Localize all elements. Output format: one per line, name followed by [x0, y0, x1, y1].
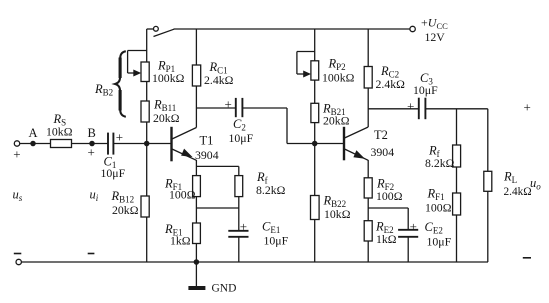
- wire collector1 to C2: [196, 107, 235, 109]
- resistor RE2: [364, 221, 372, 241]
- svg-text:100kΩ: 100kΩ: [152, 71, 185, 85]
- svg-text:12V: 12V: [425, 30, 446, 44]
- svg-text:1kΩ: 1kΩ: [170, 234, 191, 248]
- svg-text:8.2kΩ: 8.2kΩ: [256, 183, 286, 197]
- wire C1 to T1 base: [113, 143, 170, 145]
- svg-text:3904: 3904: [195, 148, 219, 162]
- resistor RF2: [364, 178, 372, 198]
- svg-text:20kΩ: 20kΩ: [153, 111, 180, 125]
- wire collector2 to C3: [368, 108, 419, 110]
- wire RC1 branch: [195, 29, 197, 128]
- svg-text:RL: RL: [503, 170, 517, 186]
- svg-text:+: +: [410, 219, 417, 234]
- svg-text:2.4kΩ: 2.4kΩ: [504, 186, 532, 198]
- svg-text:100kΩ: 100kΩ: [322, 71, 355, 85]
- resistor Rf (stage 1): [235, 176, 243, 197]
- svg-text:A: A: [29, 126, 38, 140]
- svg-text:10μF: 10μF: [229, 131, 254, 145]
- svg-text:100Ω: 100Ω: [169, 188, 196, 202]
- svg-text:10kΩ: 10kΩ: [324, 207, 351, 221]
- node A: [31, 141, 35, 145]
- svg-text:100Ω: 100Ω: [425, 201, 452, 215]
- svg-text:100Ω: 100Ω: [376, 189, 403, 203]
- svg-text:1kΩ: 1kΩ: [376, 232, 397, 246]
- wire bottom rail: [21, 261, 488, 263]
- capacitor CE2: [398, 230, 418, 237]
- svg-text:+: +: [524, 100, 531, 115]
- label minus B: [88, 253, 95, 255]
- svg-text:2.4kΩ: 2.4kΩ: [204, 73, 234, 87]
- wire RP1 wiper hook: [128, 51, 147, 74]
- wire T1 emitter network: [196, 160, 238, 262]
- resistor RS: [51, 140, 72, 148]
- svg-text:3904: 3904: [371, 145, 395, 159]
- svg-text:us: us: [13, 188, 23, 204]
- switch S1: [147, 26, 174, 36]
- label minus input: [14, 253, 21, 255]
- svg-text:+: +: [116, 130, 123, 145]
- resistor RE1: [193, 223, 201, 244]
- svg-text:+: +: [240, 219, 247, 234]
- capacitor C1: [108, 133, 113, 155]
- node input terminal top: [14, 141, 19, 146]
- capacitor C2: [236, 98, 243, 117]
- wire bias chain 2: [314, 29, 316, 262]
- label minus output: [523, 257, 531, 259]
- svg-text:+: +: [88, 145, 95, 160]
- transistor T2 collector: [345, 127, 369, 138]
- resistor RB22: [311, 196, 320, 220]
- svg-text:10μF: 10μF: [264, 234, 289, 248]
- svg-text:CE2: CE2: [425, 220, 443, 236]
- resistor RB12: [141, 196, 149, 217]
- RP2 wiper arrowhead: [303, 71, 311, 78]
- svg-text:ui: ui: [90, 188, 99, 204]
- wire C3 to output: [425, 108, 487, 110]
- node +Ucc terminal: [410, 26, 415, 31]
- svg-text:GND: GND: [212, 283, 237, 295]
- wire bias chain 1: [146, 29, 148, 262]
- potentiometer RP2: [311, 61, 319, 80]
- transistor T2 base bar: [343, 127, 345, 161]
- resistor RC2: [364, 67, 372, 89]
- svg-text:B: B: [88, 126, 96, 140]
- transistor T1 base bar: [170, 127, 172, 162]
- resistor RB11: [141, 101, 149, 122]
- wire C2 to T2 base: [242, 108, 343, 144]
- svg-text:8.2kΩ: 8.2kΩ: [425, 156, 455, 170]
- svg-text:T2: T2: [374, 128, 388, 142]
- capacitor CE1: [228, 231, 248, 237]
- potentiometer RP1: [141, 62, 149, 82]
- capacitor C3: [419, 98, 426, 120]
- resistor Rf (output): [453, 145, 461, 167]
- ground: [188, 262, 205, 290]
- wire input to C1: [20, 143, 108, 145]
- wire RL branch: [487, 109, 489, 262]
- svg-text:+: +: [407, 99, 414, 114]
- svg-text:RB12: RB12: [111, 189, 135, 205]
- svg-text:uo: uo: [530, 176, 541, 192]
- transistor T2 emitter arrowhead: [353, 150, 365, 159]
- wire T2 emitter network: [368, 160, 408, 262]
- transistor T1 emitter arrowhead: [181, 149, 193, 158]
- transistor T1 collector: [172, 128, 196, 140]
- resistor RB21: [311, 103, 319, 122]
- resistor RF1 (stage 1): [193, 176, 201, 197]
- resistor RL: [484, 171, 492, 191]
- node B: [90, 141, 94, 145]
- node base1 junction: [145, 141, 149, 145]
- wire RC2 branch: [367, 29, 369, 127]
- svg-text:10kΩ: 10kΩ: [46, 125, 73, 139]
- resistor RC1: [192, 65, 200, 86]
- node base2 junction: [313, 141, 317, 145]
- svg-text:T1: T1: [200, 134, 214, 148]
- svg-text:RB2: RB2: [94, 82, 113, 98]
- wire top supply rail: [174, 28, 410, 30]
- svg-text:10μF: 10μF: [413, 83, 438, 97]
- svg-text:+: +: [13, 147, 20, 162]
- node ground stem junction: [194, 260, 198, 264]
- svg-text:20kΩ: 20kΩ: [112, 203, 139, 217]
- svg-text:20kΩ: 20kΩ: [323, 114, 350, 128]
- node input terminal bottom: [16, 259, 21, 264]
- wire RP2 wiper hook: [297, 52, 315, 75]
- resistor RF1 (output): [453, 193, 461, 215]
- svg-text:10μF: 10μF: [427, 235, 452, 249]
- transistor T2 emitter: [345, 149, 369, 160]
- svg-text:10μF: 10μF: [101, 166, 126, 180]
- transistor T1 emitter: [172, 149, 196, 160]
- RP1 wiper arrowhead: [133, 70, 141, 77]
- svg-text:+UCC: +UCC: [421, 16, 448, 32]
- svg-text:+: +: [225, 97, 232, 112]
- wire feedback branch: [456, 109, 458, 262]
- svg-text:2.4kΩ: 2.4kΩ: [376, 77, 406, 91]
- brace RB2: [115, 51, 126, 117]
